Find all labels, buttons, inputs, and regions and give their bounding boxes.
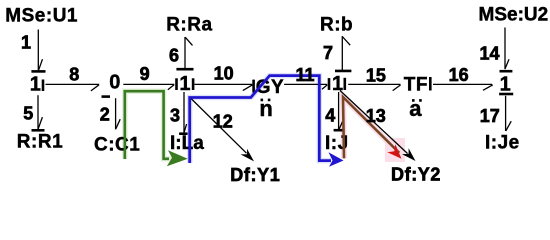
svg-text:0: 0 [109, 72, 120, 94]
svg-text:MSe:U1: MSe:U1 [5, 5, 78, 26]
svg-text:3: 3 [170, 106, 180, 126]
bond 17 causal stroke at junction [499, 93, 513, 96]
bond 3 [184, 92, 187, 133]
bond 2 causal stroke [102, 95, 111, 98]
signal 12 to Df:Y1 [190, 98, 247, 154]
svg-text:4: 4 [325, 105, 335, 125]
red arrowhead [387, 144, 401, 159]
green causal path halo [125, 91, 172, 159]
bond 11 [284, 84, 327, 89]
causal path I:J to Df:Y2 (brown) [343, 97, 399, 158]
svg-text:11: 11 [296, 65, 315, 85]
red arrowhead halo [385, 138, 405, 162]
bond 3 causal stroke [179, 132, 188, 135]
svg-text:1: 1 [500, 74, 511, 96]
bond 10 [195, 84, 253, 90]
signal 12 arrowhead [241, 149, 255, 162]
svg-text:8: 8 [69, 65, 79, 85]
svg-text:16: 16 [449, 65, 469, 85]
svg-text:13: 13 [366, 106, 386, 126]
svg-text:Df:Y2: Df:Y2 [391, 165, 441, 185]
svg-text:R:b: R:b [320, 14, 353, 35]
bond 16 [433, 84, 493, 90]
bond 1 [38, 30, 42, 71]
causal path C:C1 to I:La (green) [125, 91, 169, 159]
bond 15 [348, 84, 400, 90]
signal 13 arrowhead [402, 148, 416, 161]
bond 5 causal stroke [32, 129, 45, 132]
bond 2 [116, 98, 121, 129]
bond 10 causal stroke at GY [252, 80, 255, 93]
bond 6 [185, 37, 193, 68]
green arrowhead [167, 150, 188, 166]
bond 7 causal stroke [335, 70, 351, 73]
svg-text:R:Ra: R:Ra [166, 14, 212, 35]
bond 14 [505, 28, 509, 70]
svg-text:12: 12 [213, 112, 233, 132]
bond 1 causal stroke [31, 70, 45, 73]
bond 8 [46, 84, 100, 91]
svg-text:MSe:U2: MSe:U2 [479, 5, 549, 26]
svg-text:5: 5 [23, 103, 33, 123]
svg-text:Df:Y1: Df:Y1 [230, 165, 280, 185]
svg-text:1: 1 [30, 74, 41, 96]
brown causal path halo [343, 97, 399, 158]
signal 13 to Df:Y2 [340, 91, 408, 154]
svg-text:n: n [259, 96, 272, 121]
TF causal stroke [429, 77, 432, 91]
svg-text:a: a [409, 96, 422, 121]
svg-text:9: 9 [140, 64, 150, 84]
svg-text:C:C1: C:C1 [94, 134, 140, 155]
svg-text:I:Je: I:Je [485, 133, 520, 154]
bond 6 causal stroke [176, 68, 193, 71]
blue causal path halo [190, 76, 331, 163]
bond 4 causal stroke [334, 129, 344, 132]
causal path I:La to I:J via GY (blue) [190, 76, 331, 163]
svg-text:15: 15 [366, 66, 386, 86]
bond 9 [123, 84, 174, 89]
bond 7 [342, 36, 350, 70]
svg-text:6: 6 [169, 45, 179, 65]
svg-text:1: 1 [179, 73, 190, 95]
svg-text:I:La: I:La [170, 133, 204, 154]
bond 8 causal stroke at junction [42, 80, 45, 92]
bond 15 causal stroke at junction [343, 78, 346, 90]
svg-text:7: 7 [323, 43, 333, 63]
svg-text:17: 17 [480, 106, 500, 126]
svg-text:1: 1 [21, 33, 31, 53]
bond 9 causal stroke at junction 1b [175, 78, 178, 90]
svg-text:2: 2 [100, 105, 110, 125]
bond 5 [38, 95, 42, 129]
bond 14 causal stroke [500, 70, 513, 73]
svg-text:14: 14 [480, 44, 500, 64]
svg-text:10: 10 [214, 63, 234, 83]
svg-text:R:R1: R:R1 [17, 131, 63, 152]
bond 11 causal stroke at junction [328, 78, 331, 90]
bond 10 causal stroke at junction [192, 78, 195, 90]
bond 17 [506, 96, 512, 131]
bond 4 [339, 92, 343, 130]
blue arrowhead [329, 152, 344, 167]
